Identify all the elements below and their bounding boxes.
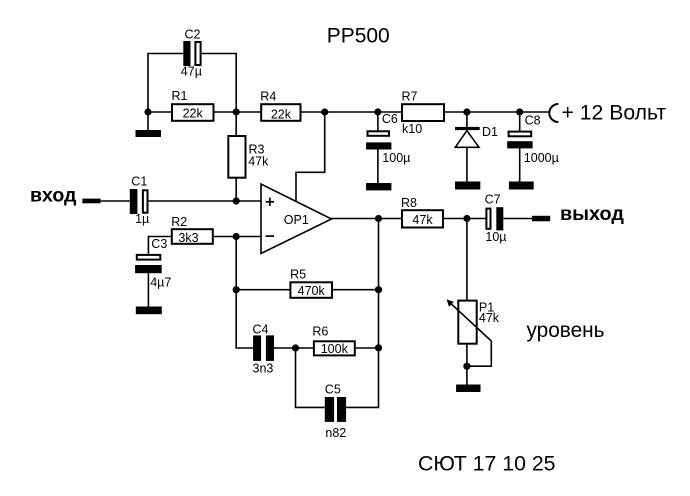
node: op-amp + input xyxy=(233,197,240,204)
svg-text:PP500: PP500 xyxy=(327,24,390,47)
svg-text:47k: 47k xyxy=(479,311,500,325)
wire: op-amp power tap up to rail node xyxy=(296,112,325,201)
capacitor C2 xyxy=(181,28,202,79)
node: C8 on rail xyxy=(516,108,523,115)
resistor R2 xyxy=(171,215,213,245)
svg-text:22k: 22k xyxy=(271,107,292,121)
svg-text:10µ: 10µ xyxy=(485,230,506,244)
wire: R3 bottom lead to + input node xyxy=(235,178,237,201)
wire: D1 bottom lead to ground xyxy=(466,147,468,182)
wire: rail segment R7 to connector xyxy=(444,111,550,113)
svg-text:OP1: OP1 xyxy=(284,213,309,227)
resistor R7 xyxy=(402,89,445,136)
wire: R8 right lead to C7 xyxy=(444,218,486,220)
op-amp OP1 xyxy=(261,184,332,254)
wire: C8 bottom lead to ground xyxy=(519,148,521,182)
node: op-amp supply tap on rail xyxy=(321,108,328,115)
wire: ground stub below R1 left node xyxy=(147,112,149,131)
svg-text:47k: 47k xyxy=(248,154,269,168)
connector: +12V terminal arc xyxy=(549,104,558,122)
wire: feedback line R6 node down and into C5 right xyxy=(346,348,378,408)
wire: rail segment node to R1 xyxy=(148,111,171,113)
svg-text:4µ7: 4µ7 xyxy=(150,276,171,290)
svg-text:22k: 22k xyxy=(183,107,204,121)
wire: rail segment R4 to R7 xyxy=(301,111,402,113)
node: op-amp output node xyxy=(375,215,382,222)
wire: C7 right lead to output stub xyxy=(503,218,532,220)
node: C4-R6 junction xyxy=(292,344,299,351)
svg-text:уровень: уровень xyxy=(527,319,605,342)
wire: R6 right lead xyxy=(356,347,379,349)
zener diode D1 xyxy=(455,125,498,147)
wire: feedback line R5 node to R6 node xyxy=(378,290,380,348)
wire: - input node down to R5 node xyxy=(235,237,237,290)
svg-text:C2: C2 xyxy=(185,28,201,42)
node: op-amp - input xyxy=(233,233,240,240)
wire: C4 right to junction xyxy=(274,347,296,349)
wire: C3 bottom lead to ground xyxy=(147,273,149,307)
ground (D1) xyxy=(455,182,480,190)
node: C6 on rail xyxy=(374,108,381,115)
node: R6 right node xyxy=(375,344,382,351)
wire: R2 right lead to - input xyxy=(214,236,261,238)
wire: C2 right lead and right vertical to rail xyxy=(202,54,237,113)
resistor R1 xyxy=(172,89,214,121)
svg-text:3k3: 3k3 xyxy=(178,231,198,245)
svg-text:R4: R4 xyxy=(260,89,276,103)
svg-text:R6: R6 xyxy=(312,324,328,338)
node: R1-R4 junction xyxy=(233,108,240,115)
svg-text:1000µ: 1000µ xyxy=(524,151,559,165)
node: R1 left / ground node xyxy=(144,108,151,115)
svg-text:470k: 470k xyxy=(298,284,326,298)
svg-text:D1: D1 xyxy=(482,125,498,139)
wire: C4/R6 junction down and into C5 left xyxy=(296,348,325,407)
capacitor C4 xyxy=(253,323,275,376)
svg-text:C8: C8 xyxy=(525,114,541,128)
ground (C3) xyxy=(136,307,162,315)
svg-text:C5: C5 xyxy=(325,383,341,397)
resistor R5 xyxy=(290,268,332,299)
ground (R1 left node) xyxy=(136,130,162,137)
svg-text:R8: R8 xyxy=(401,196,417,210)
svg-text:вход: вход xyxy=(30,184,77,206)
svg-text:C3: C3 xyxy=(151,237,167,251)
wire: R2 left lead down to C3 xyxy=(148,237,170,254)
svg-text:выход: выход xyxy=(560,203,624,225)
wire: P1 bottom lead to ground xyxy=(466,344,468,385)
wire: R5 left lead xyxy=(236,289,290,291)
ground (P1) xyxy=(456,385,480,393)
wire: R3 top lead from rail xyxy=(235,112,237,136)
wire: C1 to op-amp + input xyxy=(149,200,262,202)
wire: op-amp output to R8 xyxy=(332,218,402,220)
wire: P1 wiper return to bottom node xyxy=(467,341,491,366)
wire: rail segment R1 to R4 xyxy=(214,111,262,113)
wire: input lead to C1 xyxy=(101,200,130,202)
svg-text:47µ: 47µ xyxy=(181,65,202,79)
resistor R3 xyxy=(228,136,269,178)
wire: D1 top lead from rail xyxy=(466,112,468,128)
ground (C8) xyxy=(509,182,534,190)
capacitor C8 xyxy=(507,114,559,165)
svg-text:100k: 100k xyxy=(321,342,349,356)
capacitor C3 xyxy=(135,237,171,290)
svg-text:1µ: 1µ xyxy=(135,212,149,226)
resistor R4 xyxy=(260,89,300,121)
potentiometer P1 xyxy=(447,299,500,343)
svg-text:R5: R5 xyxy=(290,268,306,282)
capacitor C6 xyxy=(366,112,410,165)
wire: C2 left lead and left vertical to rail xyxy=(148,54,184,113)
svg-text:C6: C6 xyxy=(382,112,398,126)
wire: output node down feedback line xyxy=(378,219,380,290)
svg-text:100µ: 100µ xyxy=(382,151,410,165)
svg-text:R2: R2 xyxy=(171,215,187,229)
wire: R5 node down and into C4 xyxy=(236,290,253,348)
svg-text:C1: C1 xyxy=(131,174,147,188)
svg-text:k10: k10 xyxy=(402,122,422,136)
ground (C6) xyxy=(366,183,391,190)
wire: P1 top lead from output node xyxy=(466,219,468,301)
node: R8-C7 / P1 node xyxy=(463,215,470,222)
svg-text:n82: n82 xyxy=(325,426,346,440)
svg-text:R1: R1 xyxy=(172,89,188,103)
resistor R6 xyxy=(312,324,354,356)
input terminal stub xyxy=(82,199,100,204)
resistor R8 xyxy=(401,196,443,228)
svg-text:C7: C7 xyxy=(485,193,501,207)
svg-text:СЮТ 17 10 25: СЮТ 17 10 25 xyxy=(418,452,556,476)
node: R5 right node xyxy=(375,286,382,293)
wire: C6 bottom lead to ground xyxy=(377,150,379,184)
wire: C8 top lead from rail xyxy=(519,112,521,132)
wire: R5 right lead xyxy=(332,289,379,291)
wire: junction to R6 xyxy=(296,347,314,349)
svg-text:C4: C4 xyxy=(253,323,269,337)
output terminal stub xyxy=(532,216,550,222)
svg-text:+ 12 Вольт: + 12 Вольт xyxy=(562,102,667,125)
wire: C6 top lead from rail xyxy=(377,112,379,131)
capacitor C1 xyxy=(130,174,149,226)
capacitor C5 xyxy=(325,383,347,440)
node: P1 wiper bottom node xyxy=(463,363,470,370)
capacitor C7 xyxy=(485,193,507,245)
svg-text:47k: 47k xyxy=(412,213,433,227)
node: D1 on rail xyxy=(463,108,470,115)
svg-text:3n3: 3n3 xyxy=(253,362,274,376)
node: R5 left feedback node xyxy=(233,286,240,293)
svg-text:R7: R7 xyxy=(402,89,418,103)
